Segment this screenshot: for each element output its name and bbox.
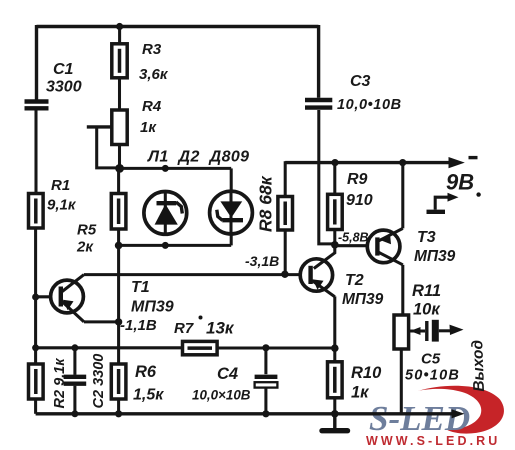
label Выход (output, rotated) <box>469 339 488 392</box>
wire feedback left segment <box>36 346 183 349</box>
wire R6 to bottom rail <box>117 399 120 414</box>
resistor R3 <box>112 41 169 83</box>
resistor R7 (horizontal) <box>174 316 235 355</box>
node C4 top <box>262 344 269 351</box>
terminal dot <box>476 192 480 196</box>
resistor R6 <box>111 363 164 404</box>
node rail/R9 <box>331 159 338 166</box>
common terminal symbol <box>427 193 459 212</box>
resistor R9 <box>328 163 373 246</box>
wire R3 to R4 <box>118 78 121 110</box>
svg-text:МП39: МП39 <box>414 248 456 265</box>
wire T3 base <box>335 244 368 247</box>
node top rail to R3 junction <box>116 23 123 30</box>
svg-text:Л1 Д2 Д809: Л1 Д2 Д809 <box>147 149 249 166</box>
wire diode top rail <box>120 167 232 170</box>
logo www.s-led.ru <box>366 434 500 448</box>
node label -3,1В <box>245 253 279 269</box>
svg-text:9В: 9В <box>446 170 474 195</box>
svg-text:13к: 13к <box>206 319 235 338</box>
resistor R5 <box>76 168 126 255</box>
svg-text:R9: R9 <box>347 171 368 188</box>
svg-text:R4: R4 <box>142 98 162 115</box>
logo swoosh <box>418 386 504 434</box>
capacitor C1 <box>25 61 82 108</box>
wire bottom rail <box>36 412 452 415</box>
node label -5,8В <box>338 231 369 245</box>
svg-text:С4: С4 <box>217 365 238 383</box>
diode D1 (zener) <box>144 192 187 235</box>
wire rail to R3 <box>118 25 121 44</box>
wire center column down to R6 <box>117 245 120 364</box>
svg-text:1к: 1к <box>351 384 370 402</box>
svg-text:R3: R3 <box>142 41 162 58</box>
svg-text:МП39: МП39 <box>342 291 384 308</box>
svg-text:Т1: Т1 <box>131 279 150 296</box>
diode D2 (zener) <box>210 191 253 234</box>
wire R4 to diode rail junction <box>118 145 121 169</box>
svg-text:-1,1В: -1,1В <box>120 317 157 334</box>
node R4/R5/diode junction <box>115 164 124 173</box>
capacitor C4 (electrolytic) <box>192 348 277 414</box>
node R6 bottom <box>115 410 122 417</box>
wire T3 collector down to R11 <box>401 265 404 315</box>
node D1 top <box>162 165 169 172</box>
svg-text:R1: R1 <box>51 177 70 194</box>
svg-text:С1: С1 <box>53 61 74 78</box>
svg-text:Т3: Т3 <box>417 229 436 246</box>
node R8 bottom junction <box>281 271 288 278</box>
capacitor C2 <box>64 348 107 414</box>
transistor T3 <box>367 228 455 265</box>
svg-text:R8 68к: R8 68к <box>256 175 276 232</box>
ground <box>322 414 348 431</box>
wire top supply rail <box>37 25 319 28</box>
wire feedback right segment <box>217 346 335 349</box>
transistor T1 <box>36 275 174 334</box>
node T1 base <box>32 294 39 301</box>
svg-text:9,1к: 9,1к <box>47 197 77 214</box>
svg-text:3,6к: 3,6к <box>139 66 169 83</box>
svg-text:1к: 1к <box>140 119 157 136</box>
resistor R2 <box>29 358 69 409</box>
node C2 top <box>71 344 78 351</box>
wire C1 to R1 <box>34 110 37 194</box>
label 9В <box>446 170 474 195</box>
node R10 bottom / ground <box>331 410 339 418</box>
label D1 D2 D809 <box>147 149 249 166</box>
svg-text:R5: R5 <box>77 222 97 239</box>
svg-text:МП39: МП39 <box>131 299 174 316</box>
node feedback wire left end <box>32 344 39 351</box>
wire node to R2 <box>34 348 37 364</box>
wire T1 emitter <box>84 320 119 323</box>
transistor T2 <box>300 259 383 308</box>
svg-text:-3,1В: -3,1В <box>245 253 279 269</box>
svg-text:1,5к: 1,5к <box>133 387 164 404</box>
wire base node down <box>34 297 37 348</box>
svg-text:R10: R10 <box>351 364 382 382</box>
svg-text:2к: 2к <box>76 239 94 256</box>
svg-text:910: 910 <box>346 192 373 209</box>
resistor R11 (potentiometer) <box>394 282 441 413</box>
svg-text:S-LED: S-LED <box>369 399 470 438</box>
node T2 emitter / R10 / feedback <box>331 344 339 352</box>
wire R2 to bottom rail <box>34 399 37 414</box>
resistor R1 <box>29 177 77 228</box>
resistor R8 <box>256 161 293 274</box>
resistor R4 (adjustable) <box>87 98 162 168</box>
resistor R10 <box>328 348 383 414</box>
svg-text:С2 3300: С2 3300 <box>91 354 107 409</box>
svg-text:10,0×10В: 10,0×10В <box>192 388 251 403</box>
svg-text:Т2: Т2 <box>345 272 364 289</box>
svg-text:Выход: Выход <box>469 339 488 392</box>
wire R5 to diode bottom rail <box>117 229 120 245</box>
wire T1 collector to T2 base (-3,1В net) <box>84 273 301 276</box>
node C2 bottom <box>71 410 78 417</box>
wire T2 emitter down <box>333 296 336 348</box>
node emitter junction <box>115 318 122 325</box>
bottom rail arrow <box>452 409 465 418</box>
node -5,8В junction <box>331 241 339 249</box>
node rail/T3 <box>399 159 406 166</box>
wire diode bottom rail <box>119 244 232 247</box>
svg-text:R11: R11 <box>412 282 441 300</box>
rail arrow <box>449 157 465 168</box>
wire T3 emitter riser <box>401 163 404 229</box>
wire left column top <box>35 25 38 100</box>
svg-text:WWW.S-LED.RU: WWW.S-LED.RU <box>366 434 500 448</box>
polarity dash <box>469 156 478 159</box>
svg-text:R6: R6 <box>135 363 157 381</box>
svg-text:С3: С3 <box>350 73 371 90</box>
svg-text:10к: 10к <box>413 301 441 319</box>
svg-text:С5: С5 <box>421 351 441 368</box>
capacitor C3 <box>305 25 402 244</box>
logo S-LED text <box>369 399 470 438</box>
node C4 bottom <box>262 410 269 417</box>
wire T2 collector riser <box>314 245 335 269</box>
wire D2 bottom lead <box>230 234 233 245</box>
wire second rail (-9V rail) <box>285 161 452 164</box>
wire D2 top lead <box>230 168 233 192</box>
svg-text:-5,8В: -5,8В <box>338 231 369 245</box>
svg-text:10,0•10В: 10,0•10В <box>337 97 402 113</box>
node D1 bottom <box>162 242 169 249</box>
capacitor C5 (electrolytic output) <box>405 320 464 384</box>
svg-text:3300: 3300 <box>46 79 82 96</box>
svg-text:R7: R7 <box>174 320 194 337</box>
wire R1 to T1 base node <box>34 228 37 297</box>
node R5/diode bottom junction <box>115 242 123 250</box>
svg-text:50•10В: 50•10В <box>405 368 460 384</box>
